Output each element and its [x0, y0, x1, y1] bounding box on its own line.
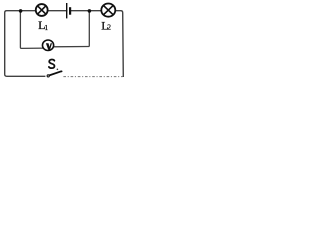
svg-text:2: 2 [107, 23, 111, 32]
label L2 [101, 18, 111, 32]
voltmeter V1 [42, 40, 53, 51]
wire voltmeter branch: right horizontal + right vertical [51, 11, 89, 47]
label S trailing dot [57, 69, 59, 71]
battery gap eraser [67, 9, 69, 13]
wire bottom faded dotted segment right of switch [63, 76, 122, 78]
node junction dot left [19, 9, 23, 13]
lamp L1 symbol [36, 4, 48, 16]
switch S lever tip [61, 71, 63, 73]
svg-text:1: 1 [44, 23, 48, 32]
switch S hinge circle [47, 75, 49, 77]
label L1 [38, 18, 48, 32]
wire outer loop: top edge, left edge, bottom-left segment, right edge [5, 11, 124, 77]
lamp L2 symbol [101, 4, 115, 17]
node junction dot right [88, 9, 92, 13]
battery B1 short plate [69, 7, 71, 15]
switch S lever [49, 71, 62, 75]
wire voltmeter branch: left vertical + left horizontal [20, 11, 45, 49]
label S [49, 60, 55, 69]
battery B1 long plate [66, 3, 68, 18]
